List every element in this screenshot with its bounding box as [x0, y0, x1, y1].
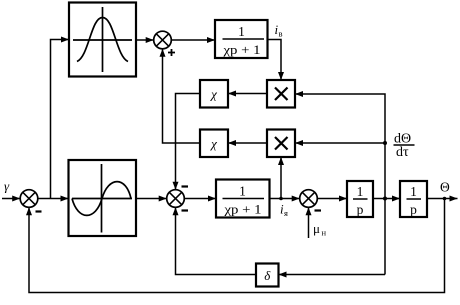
wire sine block to S2 — [136, 198, 167, 200]
svg-text:p: p — [357, 202, 364, 217]
integrator block I1 1/p — [347, 181, 373, 217]
label Theta — [440, 180, 450, 195]
block delta — [256, 264, 279, 287]
svg-text:в: в — [279, 29, 283, 39]
transfer block W2 1/(chi p + 1) — [216, 180, 270, 218]
svg-text:я: я — [284, 208, 288, 218]
multiplier M2 — [267, 130, 295, 158]
gain block chi2 — [200, 130, 228, 158]
summing junction S4 — [20, 190, 41, 212]
multiplier M1 — [267, 80, 295, 108]
svg-text:χp + 1: χp + 1 — [223, 202, 261, 217]
wire S4 output to sine block — [38, 198, 69, 200]
outer feedback wire Theta to S4 — [29, 199, 445, 293]
junction dot at dTheta branch — [383, 141, 387, 145]
wire chi1 to S2 (down) — [176, 94, 201, 190]
wire S3 to integrator I1 — [317, 198, 347, 200]
svg-text:χp + 1: χp + 1 — [222, 42, 260, 57]
svg-text:dτ: dτ — [396, 145, 409, 160]
wire dTheta/dtau to M2 — [295, 142, 385, 144]
wire M2 to chi2 — [228, 142, 267, 144]
gain block chi1 — [200, 80, 228, 108]
svg-text:1: 1 — [357, 184, 364, 199]
summing junction S2 — [167, 187, 188, 211]
wire delta to S2 (up) — [176, 207, 257, 274]
wire W1 output down to multiplier M1 — [268, 40, 282, 81]
wire dTheta/dtau down to delta block — [279, 274, 386, 276]
integrator block I2 1/p — [400, 181, 427, 217]
svg-text:н: н — [322, 228, 327, 238]
svg-text:1: 1 — [410, 184, 417, 199]
junction dot output feedback tap — [443, 197, 447, 201]
label dTheta/dtau — [394, 132, 415, 161]
transfer block W1 1/(chi p + 1) — [215, 20, 268, 58]
svg-text:p: p — [410, 202, 417, 217]
wire branch up to M2 bottom — [280, 157, 282, 199]
svg-text:γ: γ — [4, 179, 10, 194]
svg-text:1: 1 — [239, 184, 246, 199]
wire gamma input arrow — [2, 198, 20, 200]
label i_ya — [280, 202, 288, 219]
wire branch up to bell block — [51, 40, 70, 199]
junction dot i_ya branch — [279, 197, 283, 201]
svg-text:μ: μ — [313, 221, 320, 236]
wire I2 to output Theta — [427, 198, 458, 200]
label gamma (input) — [4, 179, 10, 194]
label mu_n — [313, 221, 327, 238]
wire S2 to block W2 — [184, 198, 216, 200]
summing junction S1 — [154, 31, 175, 56]
label i_v — [275, 22, 283, 39]
wire mu_n input — [308, 207, 310, 238]
wire M1 to chi1 — [228, 93, 267, 95]
wire chi2 to S1 (up) — [163, 49, 201, 143]
wire W2 to S3 — [270, 198, 300, 200]
junction dot dTheta tap — [383, 197, 387, 201]
nonlinearity block F2 (sine curve) — [69, 160, 137, 236]
nonlinearity block F1 (bell curve) — [69, 3, 136, 77]
svg-text:χ: χ — [209, 87, 217, 102]
wire I1 to I2 — [373, 198, 400, 200]
svg-text:χ: χ — [209, 136, 217, 151]
svg-text:1: 1 — [238, 24, 245, 39]
svg-text:Θ: Θ — [440, 180, 450, 195]
net dTheta/dtau vertical and branch to M1 — [295, 94, 385, 275]
wire S1 to block W1 — [171, 39, 215, 41]
wire bell block to S1 — [136, 39, 154, 41]
summing junction S3 — [300, 190, 321, 211]
svg-text:δ: δ — [264, 268, 271, 283]
